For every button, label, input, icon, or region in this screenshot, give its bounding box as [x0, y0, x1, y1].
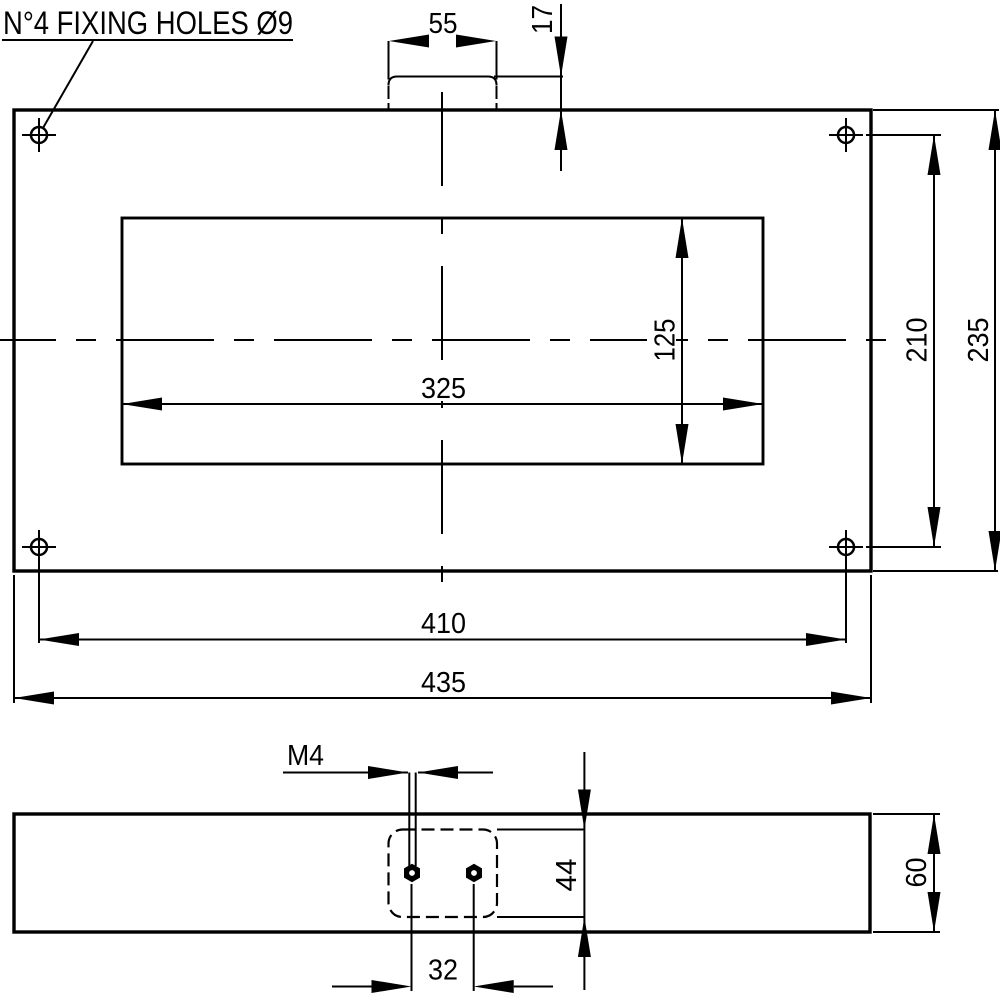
svg-text:44: 44 [551, 859, 583, 892]
svg-text:125: 125 [650, 319, 682, 362]
svg-text:N°4 FIXING HOLES Ø9: N°4 FIXING HOLES Ø9 [3, 5, 293, 41]
svg-text:325: 325 [421, 373, 466, 405]
svg-text:410: 410 [421, 608, 466, 640]
svg-text:435: 435 [421, 667, 466, 699]
svg-text:32: 32 [428, 955, 458, 987]
svg-text:M4: M4 [287, 740, 324, 772]
svg-text:235: 235 [963, 318, 995, 363]
svg-text:60: 60 [901, 858, 933, 888]
svg-text:210: 210 [902, 318, 934, 363]
svg-text:17: 17 [527, 5, 559, 34]
svg-text:55: 55 [429, 8, 458, 40]
